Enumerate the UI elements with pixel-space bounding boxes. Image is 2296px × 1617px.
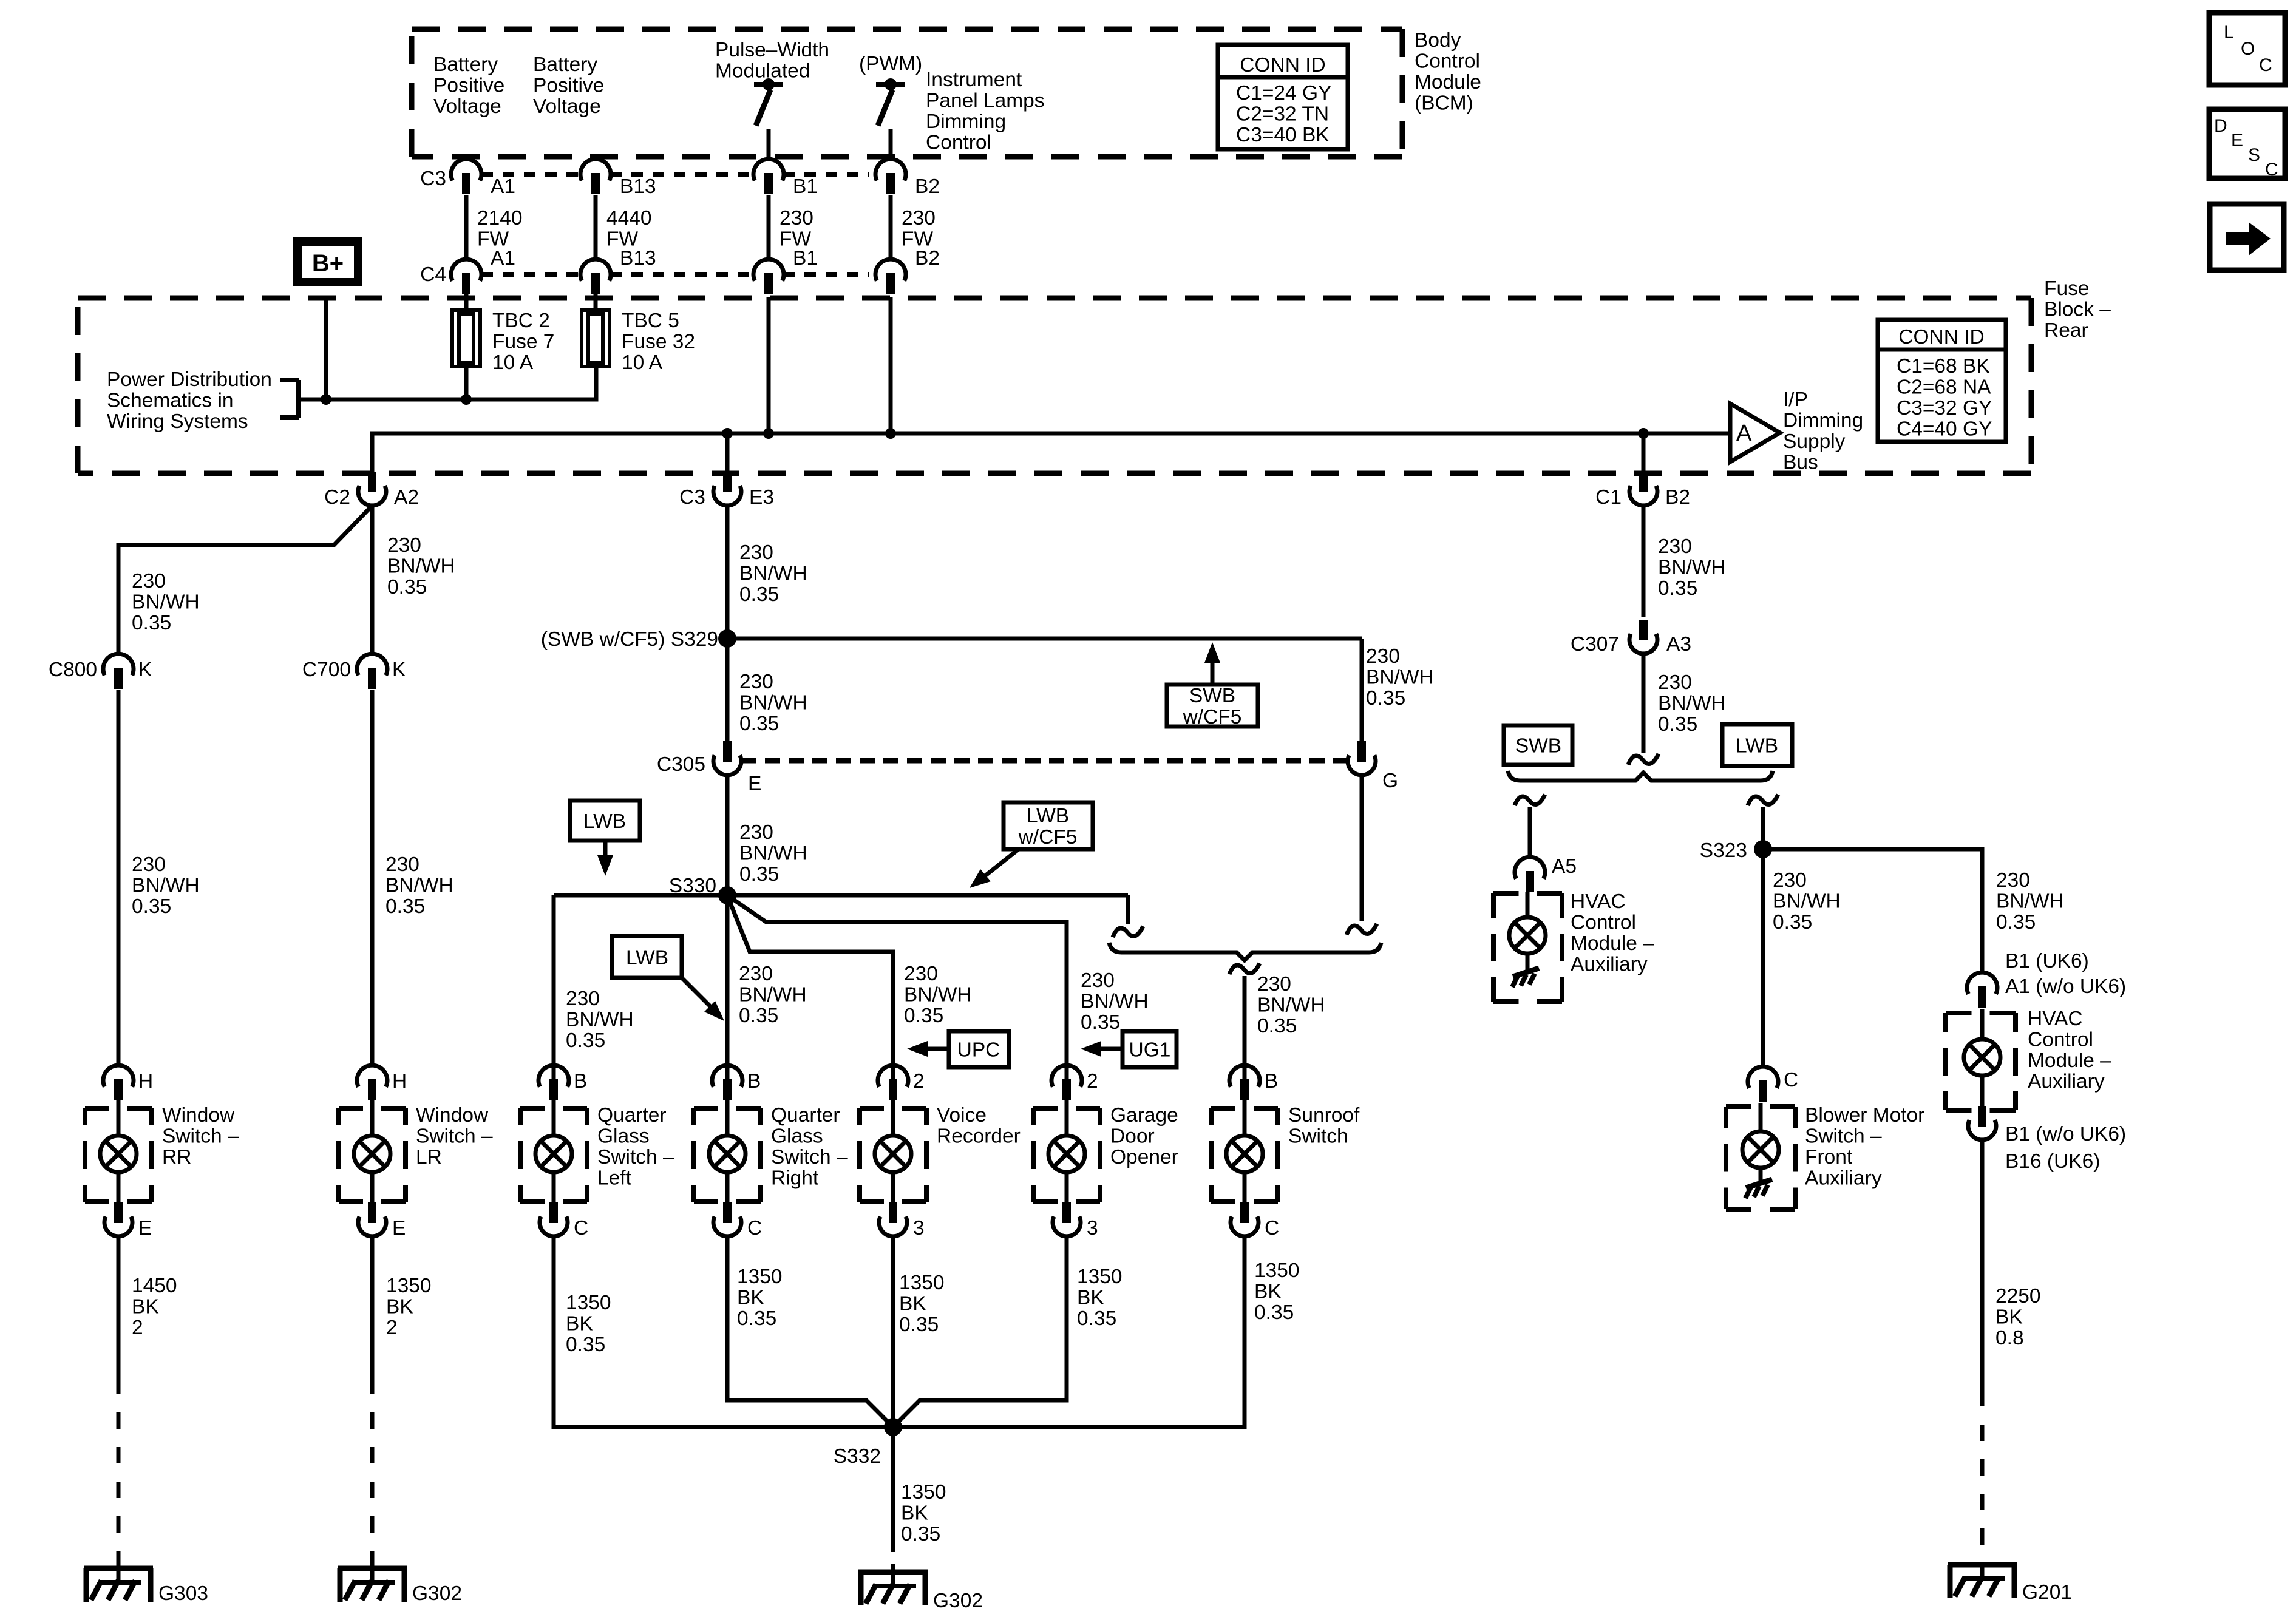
label quarter glass switch left xyxy=(597,1104,674,1190)
voice recorder dashed box xyxy=(860,1108,926,1202)
svg-text:0.35: 0.35 xyxy=(132,895,171,918)
wire S323 to HVAC control module auxiliary right xyxy=(1763,849,1982,972)
svg-text:0.35: 0.35 xyxy=(566,1029,605,1052)
label I/P dimming supply bus xyxy=(1783,388,1863,474)
svg-text:B1: B1 xyxy=(793,247,818,269)
wire S330 to quarter glass left xyxy=(552,895,556,1080)
svg-text:C: C xyxy=(1265,1217,1279,1239)
label blower motor switch front auxiliary xyxy=(1805,1104,1924,1190)
wire label 1450 BK 2 xyxy=(132,1275,177,1339)
svg-text:0.35: 0.35 xyxy=(1658,577,1697,600)
LWB callout box 2 xyxy=(612,936,724,1021)
svg-text:B13: B13 xyxy=(620,247,656,269)
svg-text:2140: 2140 xyxy=(477,207,523,229)
svg-text:Module –: Module – xyxy=(1571,932,1654,955)
window switch RR dashed box xyxy=(85,1108,152,1202)
svg-text:G303: G303 xyxy=(158,1582,208,1605)
svg-text:10 A: 10 A xyxy=(622,351,663,374)
wire S330 to sunroof brace xyxy=(1113,895,1143,937)
wire garage door to S332 xyxy=(893,1236,1067,1427)
svg-text:LWB: LWB xyxy=(1736,735,1778,758)
svg-text:0.35: 0.35 xyxy=(737,1307,776,1330)
label quarter glass switch right xyxy=(771,1104,848,1190)
wire brace to HVAC control module auxiliary A5 xyxy=(1515,795,1545,858)
svg-text:A5: A5 xyxy=(1552,855,1577,878)
wire label 230 BN/WH 0.35 (QG left) xyxy=(566,988,634,1052)
fuse TBC 5 xyxy=(582,310,610,367)
svg-text:C700: C700 xyxy=(302,659,351,681)
label B1 w/o UK6 xyxy=(2005,1123,2126,1145)
svg-text:Window: Window xyxy=(162,1104,235,1127)
forward arrow box xyxy=(2210,204,2284,270)
svg-text:C: C xyxy=(1784,1069,1798,1091)
svg-text:Body: Body xyxy=(1415,29,1461,52)
junction dot fuse TBC2 rail xyxy=(461,394,472,405)
svg-text:S: S xyxy=(2248,145,2260,165)
svg-text:Module –: Module – xyxy=(2028,1049,2111,1072)
wire C2 to C700 xyxy=(370,506,375,654)
wire label 230 BN/WH 0.35 (above C305) xyxy=(739,671,807,735)
svg-text:LR: LR xyxy=(416,1146,442,1168)
svg-text:10 A: 10 A xyxy=(492,351,534,374)
svg-text:B1: B1 xyxy=(793,175,818,198)
label HVAC control module auxiliary right xyxy=(2028,1008,2111,1093)
svg-text:H: H xyxy=(392,1070,407,1093)
junction dot bus at C2 tap xyxy=(722,428,733,439)
svg-text:E: E xyxy=(748,773,761,795)
connector pin 2 (garage door opener) xyxy=(1051,1065,1098,1100)
svg-text:BN/WH: BN/WH xyxy=(1366,666,1434,689)
wire label 230 BN/WH 0.35 (above S330) xyxy=(739,821,807,886)
lamp sunroof switch xyxy=(1226,1100,1263,1203)
svg-text:BN/WH: BN/WH xyxy=(1773,890,1841,913)
label G302 left xyxy=(412,1582,462,1605)
connector C3 pin B13 (BCM) xyxy=(580,159,656,198)
connector A5 (HVAC control module aux) xyxy=(1515,855,1577,892)
svg-text:B: B xyxy=(747,1070,761,1093)
connector pin 3 (garage door opener) xyxy=(1053,1202,1098,1239)
wire label 230 BN/WH 0.35 (above C307) xyxy=(1658,535,1726,600)
svg-text:B13: B13 xyxy=(620,175,656,198)
lamp quarter glass switch left xyxy=(535,1100,572,1203)
UPC callout box xyxy=(907,1031,1009,1067)
svg-text:2: 2 xyxy=(1087,1070,1098,1093)
label B16 UK6 xyxy=(2005,1150,2100,1173)
svg-text:Block –: Block – xyxy=(2044,299,2111,321)
svg-text:B1 (w/o UK6): B1 (w/o UK6) xyxy=(2005,1123,2126,1145)
label pulse-width modulated xyxy=(715,39,829,83)
svg-text:BK: BK xyxy=(737,1287,764,1309)
svg-text:C1=68 BK: C1=68 BK xyxy=(1897,355,1990,378)
connector C307 pin A3 xyxy=(1571,620,1691,656)
svg-text:Dimming: Dimming xyxy=(1783,410,1863,432)
label HVAC control module auxiliary left xyxy=(1571,890,1654,976)
connector C4 pin A1 (fuse block) xyxy=(420,247,515,294)
label fuse block rear xyxy=(2044,277,2111,342)
svg-text:BN/WH: BN/WH xyxy=(1257,994,1325,1017)
label window switch RR xyxy=(162,1104,239,1168)
B+ box xyxy=(297,242,358,282)
svg-text:C1: C1 xyxy=(1595,486,1622,509)
svg-text:BN/WH: BN/WH xyxy=(739,984,807,1006)
svg-text:230: 230 xyxy=(387,534,421,557)
svg-text:Left: Left xyxy=(597,1167,632,1190)
lamp voice recorder xyxy=(875,1100,911,1203)
wire S330 to garage door opener xyxy=(727,895,1067,1080)
svg-text:1350: 1350 xyxy=(386,1275,432,1297)
svg-text:C800: C800 xyxy=(49,659,97,681)
LOC box xyxy=(2209,13,2285,85)
svg-text:TBC 2: TBC 2 xyxy=(492,310,550,332)
svg-text:230: 230 xyxy=(566,988,600,1010)
svg-text:1350: 1350 xyxy=(899,1272,945,1294)
wire G to sunroof brace xyxy=(1347,775,1377,935)
svg-text:K: K xyxy=(138,659,152,681)
svg-text:Battery: Battery xyxy=(533,53,597,76)
garage door opener dashed box xyxy=(1033,1108,1100,1202)
wire S332 to G302 xyxy=(891,1427,895,1552)
label battery positive voltage 2 xyxy=(533,53,604,118)
svg-text:0.35: 0.35 xyxy=(1254,1301,1294,1324)
wire label 230 BN/WH 0.35 (above S329) xyxy=(739,541,807,606)
wire label 230 BN/WH 0.35 xyxy=(132,853,200,918)
wire I/P dimming supply bus xyxy=(372,433,1731,473)
svg-text:K: K xyxy=(392,659,406,681)
svg-text:C4: C4 xyxy=(420,263,446,286)
splice S332 xyxy=(884,1418,902,1436)
wire C307 to SWB/LWB brace xyxy=(1628,654,1659,765)
wire label 1350 BK 0.35 (QG left) xyxy=(566,1292,611,1356)
label battery positive voltage 1 xyxy=(433,53,504,118)
buffer triangle A (I/P dimming supply bus) xyxy=(1730,404,1780,462)
wire 1450 BK to G303 xyxy=(117,1236,121,1378)
wire S329 to C305 xyxy=(725,639,730,742)
wire label 230 BN/WH 0.35 (C700 branch) xyxy=(387,534,455,598)
svg-text:Sunroof: Sunroof xyxy=(1288,1104,1360,1127)
svg-text:C: C xyxy=(574,1217,588,1239)
sunroof merge brace xyxy=(1109,943,1381,960)
lamp window switch LR xyxy=(354,1100,390,1203)
svg-text:230: 230 xyxy=(739,821,773,844)
svg-text:Battery: Battery xyxy=(433,53,498,76)
wire S330 to voice recorder xyxy=(727,895,893,1080)
svg-text:0.8: 0.8 xyxy=(1995,1327,2024,1349)
svg-text:RR: RR xyxy=(162,1146,191,1168)
svg-text:S332: S332 xyxy=(834,1445,881,1468)
wire brace to S323 xyxy=(1748,795,1778,849)
svg-text:230: 230 xyxy=(1257,973,1291,995)
wire label 230 BN/WH 0.35 (voice recorder) xyxy=(904,963,972,1027)
label G303 xyxy=(158,1582,208,1605)
ground G303 xyxy=(84,1568,153,1602)
label G201 xyxy=(2022,1581,2072,1604)
svg-text:0.35: 0.35 xyxy=(904,1005,943,1027)
svg-text:E: E xyxy=(138,1217,152,1239)
svg-text:Instrument: Instrument xyxy=(926,69,1022,91)
wire brace to sunroof switch xyxy=(1229,963,1260,1080)
svg-text:C2=68 NA: C2=68 NA xyxy=(1897,376,1991,399)
svg-text:Switch –: Switch – xyxy=(597,1146,674,1168)
wire B+ rail xyxy=(299,367,596,399)
connector C2 pin A2 (fuse block bottom) xyxy=(324,472,419,509)
svg-text:C1=24 GY: C1=24 GY xyxy=(1236,82,1331,104)
PWM switch 1 xyxy=(754,78,783,158)
svg-text:2: 2 xyxy=(132,1317,143,1339)
wire fuse TBC2 to rail xyxy=(464,367,469,399)
LWB callout box 1 xyxy=(570,801,640,876)
svg-text:Pulse–Width: Pulse–Width xyxy=(715,39,829,61)
label A1 w/o UK6 xyxy=(2005,975,2126,998)
svg-text:230: 230 xyxy=(132,853,166,876)
body control module BCM dashed box xyxy=(412,29,1402,157)
svg-text:B16 (UK6): B16 (UK6) xyxy=(2005,1150,2100,1173)
wire label 1350 BK 0.35 (sunroof) xyxy=(1254,1259,1300,1324)
svg-text:Front: Front xyxy=(1805,1146,1853,1168)
svg-text:Voltage: Voltage xyxy=(433,95,501,118)
wire label 1350 BK 2 xyxy=(386,1275,432,1339)
svg-text:w/CF5: w/CF5 xyxy=(1183,706,1242,728)
svg-text:O: O xyxy=(2241,39,2255,59)
connector B1/B16 (HVAC module right bottom) xyxy=(1968,1106,1996,1140)
wire label 2250 BK 0.8 xyxy=(1995,1285,2041,1349)
connector C3 pin B1 (BCM) xyxy=(753,159,818,198)
wire label 1350 BK 0.35 (voice recorder) xyxy=(899,1272,945,1336)
label garage door opener xyxy=(1110,1104,1178,1168)
label sunroof switch xyxy=(1288,1104,1360,1148)
fuse block CONN ID table xyxy=(1878,320,2006,442)
sunroof switch dashed box xyxy=(1211,1108,1278,1202)
svg-text:BK: BK xyxy=(386,1296,413,1318)
svg-text:UPC: UPC xyxy=(957,1039,1000,1062)
svg-text:230: 230 xyxy=(132,570,166,592)
svg-text:Switch: Switch xyxy=(1288,1125,1348,1148)
wire C1/B2 to C307 xyxy=(1642,506,1646,617)
svg-text:BN/WH: BN/WH xyxy=(739,563,807,585)
svg-text:A1 (w/o UK6): A1 (w/o UK6) xyxy=(2005,975,2126,998)
svg-text:BK: BK xyxy=(901,1502,928,1525)
svg-text:LWB: LWB xyxy=(626,947,668,969)
wire bus tap to C1/B2 xyxy=(1642,433,1646,473)
svg-text:Garage: Garage xyxy=(1110,1104,1178,1127)
svg-text:230: 230 xyxy=(1081,969,1115,992)
BCM CONN ID table xyxy=(1218,45,1348,149)
svg-text:LWB: LWB xyxy=(1027,805,1069,827)
ground G302 center xyxy=(858,1572,928,1605)
svg-text:G302: G302 xyxy=(412,1582,462,1605)
label voice recorder xyxy=(937,1104,1021,1148)
label TBC 5 fuse 32 10 A xyxy=(622,310,695,374)
svg-text:HVAC: HVAC xyxy=(2028,1008,2083,1030)
stub above G302 center xyxy=(891,1564,895,1572)
svg-text:Auxiliary: Auxiliary xyxy=(2028,1071,2105,1093)
svg-text:0.35: 0.35 xyxy=(739,1005,778,1027)
lamp HVAC control module aux right xyxy=(1964,1009,2000,1107)
wire 4440 FW xyxy=(594,195,598,259)
wire label 230 BN/WH 0.35 (sunroof) xyxy=(1257,973,1325,1037)
wire B2 to dimming bus xyxy=(889,297,893,433)
lamp quarter glass switch right xyxy=(709,1100,746,1203)
svg-text:Quarter: Quarter xyxy=(597,1104,667,1127)
svg-text:BN/WH: BN/WH xyxy=(739,692,807,714)
svg-text:1350: 1350 xyxy=(1077,1266,1123,1288)
svg-text:BK: BK xyxy=(132,1296,159,1318)
svg-text:D: D xyxy=(2214,116,2227,136)
svg-text:CONN ID: CONN ID xyxy=(1898,326,1984,348)
connector E (window switch LR) xyxy=(358,1202,406,1239)
connector B1/A1 (HVAC module right) xyxy=(1967,972,1997,1008)
ground G201 xyxy=(1948,1565,2017,1598)
svg-text:1350: 1350 xyxy=(1254,1259,1300,1282)
wire B13 pin to fuse TBC5 xyxy=(594,294,598,310)
svg-text:Supply: Supply xyxy=(1783,430,1846,453)
wire S323 to blower motor switch xyxy=(1761,849,1765,1067)
svg-text:0.35: 0.35 xyxy=(739,863,779,886)
wire label 230 BN/WH 0.35 (S329 right branch) xyxy=(1366,645,1434,710)
label TBC 2 fuse 7 10 A xyxy=(492,310,554,374)
svg-text:0.35: 0.35 xyxy=(739,583,779,606)
ground G302 left xyxy=(338,1568,407,1602)
connector C700 pin K xyxy=(302,654,406,689)
svg-text:Fuse: Fuse xyxy=(2044,277,2089,300)
svg-text:BN/WH: BN/WH xyxy=(385,875,453,897)
connector C305 pin E xyxy=(657,741,761,795)
wire label 230 BN/WH 0.35 xyxy=(385,853,453,918)
svg-text:A3: A3 xyxy=(1666,633,1691,656)
svg-text:G302: G302 xyxy=(933,1590,983,1612)
svg-text:Door: Door xyxy=(1110,1125,1155,1148)
svg-text:BK: BK xyxy=(1077,1287,1104,1309)
svg-text:SWB: SWB xyxy=(1189,685,1235,707)
wire C2 to C800 branch xyxy=(118,506,372,654)
wire C800 to window switch xyxy=(117,690,121,1066)
SWB w/CF5 callout box xyxy=(1167,642,1258,728)
svg-text:2: 2 xyxy=(913,1070,925,1093)
svg-text:2250: 2250 xyxy=(1995,1285,2041,1307)
svg-text:Glass: Glass xyxy=(771,1125,823,1148)
wire B+ feed xyxy=(324,297,328,399)
svg-text:BN/WH: BN/WH xyxy=(904,984,972,1006)
svg-text:B1 (UK6): B1 (UK6) xyxy=(2005,950,2089,972)
wire C305 to S330 xyxy=(725,775,730,895)
svg-text:Rear: Rear xyxy=(2044,319,2088,342)
wire 2140 FW xyxy=(464,195,469,259)
svg-text:0.35: 0.35 xyxy=(1658,713,1697,736)
svg-text:Switch –: Switch – xyxy=(416,1125,493,1148)
svg-text:0.35: 0.35 xyxy=(899,1314,939,1336)
svg-text:B: B xyxy=(1265,1070,1278,1093)
svg-text:Bus: Bus xyxy=(1783,452,1818,474)
wire label 230 BN/WH 0.35 (blower) xyxy=(1773,869,1841,934)
svg-text:Switch –: Switch – xyxy=(1805,1125,1882,1148)
junction dot B+ rail xyxy=(321,394,331,405)
wire C700 to window switch xyxy=(370,690,375,1066)
svg-text:Control: Control xyxy=(2028,1029,2093,1051)
svg-text:0.35: 0.35 xyxy=(385,895,425,918)
connector C4 pin B13 (fuse block) xyxy=(580,247,656,294)
svg-text:BN/WH: BN/WH xyxy=(1081,991,1149,1013)
svg-text:Right: Right xyxy=(771,1167,819,1190)
label window switch LR xyxy=(416,1104,493,1168)
svg-text:B2: B2 xyxy=(915,175,940,198)
svg-text:(PWM): (PWM) xyxy=(859,53,922,75)
svg-text:230: 230 xyxy=(1658,535,1692,558)
svg-text:Control: Control xyxy=(1571,912,1636,934)
svg-text:B: B xyxy=(574,1070,587,1093)
wire bus tap to C3/E3 xyxy=(725,433,730,473)
LWB w/CF5 callout box xyxy=(970,802,1093,888)
junction dot bus at B1 xyxy=(763,428,774,439)
svg-text:UG1: UG1 xyxy=(1129,1039,1171,1062)
svg-text:0.35: 0.35 xyxy=(901,1523,940,1545)
svg-text:230: 230 xyxy=(904,963,938,985)
wire label 230 BN/WH 0.35 (HVAC right) xyxy=(1996,869,2064,934)
svg-text:Voice: Voice xyxy=(937,1104,987,1127)
svg-text:C3: C3 xyxy=(679,486,705,509)
junction dot bus at C1 tap xyxy=(1638,428,1649,439)
ground inside HVAC module left xyxy=(1512,968,1539,987)
svg-text:w/CF5: w/CF5 xyxy=(1018,826,1078,849)
UG1 callout box xyxy=(1081,1031,1177,1067)
junction dot bus at B2 xyxy=(885,428,896,439)
label power distribution schematics xyxy=(107,368,272,433)
svg-text:Dimming: Dimming xyxy=(926,110,1006,133)
lamp blower motor switch xyxy=(1742,1103,1779,1181)
connector C (blower motor switch) xyxy=(1748,1066,1798,1102)
power distribution bracket xyxy=(280,380,299,418)
svg-text:C2: C2 xyxy=(324,486,350,509)
svg-text:0.35: 0.35 xyxy=(1257,1015,1297,1037)
svg-text:BN/WH: BN/WH xyxy=(566,1009,634,1031)
svg-text:A2: A2 xyxy=(394,486,419,509)
wire C3/E3 to S329 xyxy=(725,506,730,639)
svg-text:Glass: Glass xyxy=(597,1125,650,1148)
wire 1350 BK to G302 left xyxy=(370,1236,375,1378)
svg-text:C3: C3 xyxy=(420,168,446,190)
svg-text:(BCM): (BCM) xyxy=(1415,92,1473,115)
svg-text:L: L xyxy=(2224,22,2234,42)
splice S330 xyxy=(554,886,1128,904)
svg-text:G201: G201 xyxy=(2022,1581,2072,1604)
svg-text:C3=40 BK: C3=40 BK xyxy=(1236,124,1330,146)
svg-text:Positive: Positive xyxy=(533,75,604,97)
svg-text:Blower Motor: Blower Motor xyxy=(1805,1104,1924,1127)
svg-text:1350: 1350 xyxy=(901,1481,946,1503)
svg-text:C: C xyxy=(2265,160,2278,180)
svg-text:SWB: SWB xyxy=(1515,735,1561,758)
svg-text:3: 3 xyxy=(913,1217,925,1239)
ground inside blower motor switch xyxy=(1745,1179,1772,1198)
wire sunroof to S332 xyxy=(893,1236,1245,1427)
svg-text:Control: Control xyxy=(926,132,991,154)
wire voice recorder to S332 xyxy=(891,1236,895,1427)
svg-text:0.35: 0.35 xyxy=(387,576,427,598)
svg-text:BK: BK xyxy=(899,1293,926,1315)
svg-text:G: G xyxy=(1382,770,1398,792)
svg-text:Control: Control xyxy=(1415,50,1480,73)
svg-text:BK: BK xyxy=(566,1313,593,1335)
svg-text:B2: B2 xyxy=(915,247,940,269)
connector H (window switch LR) xyxy=(357,1065,407,1100)
svg-text:1350: 1350 xyxy=(566,1292,611,1314)
svg-text:Wiring Systems: Wiring Systems xyxy=(107,410,248,433)
svg-text:C307: C307 xyxy=(1571,633,1619,656)
HVAC control module auxiliary dashed box (right) xyxy=(1946,1013,2016,1110)
svg-text:I/P: I/P xyxy=(1783,388,1808,411)
svg-text:C: C xyxy=(2259,55,2272,75)
svg-text:0.35: 0.35 xyxy=(1996,911,2036,934)
lamp garage door opener xyxy=(1048,1100,1085,1203)
svg-text:Recorder: Recorder xyxy=(937,1125,1021,1148)
